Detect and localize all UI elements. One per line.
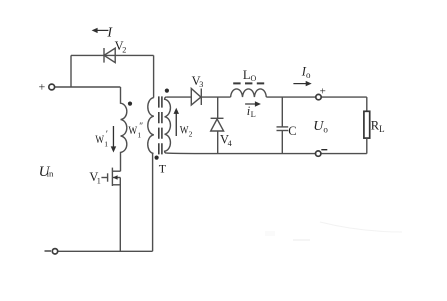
transformer core dashed lines <box>158 96 160 155</box>
svg-text:T: T <box>159 161 167 175</box>
arrow Io <box>293 81 311 86</box>
terminal output plus <box>316 94 321 99</box>
diode V4 <box>211 118 224 153</box>
label minus output <box>321 149 327 151</box>
label minus input <box>45 250 52 252</box>
svg-text:2: 2 <box>189 130 193 139</box>
wire: input plus lead <box>55 86 121 88</box>
winding W1 primary (left column) <box>121 87 127 171</box>
diode V3 <box>191 89 201 106</box>
dot W1 polarity <box>128 102 132 106</box>
dot demag polarity <box>155 156 159 160</box>
wire: V2 right leg down to demag winding <box>153 55 155 97</box>
capacitor C branch lower <box>281 131 283 154</box>
arrow W1' down <box>111 126 117 153</box>
svg-text:1: 1 <box>104 140 108 149</box>
inductor Lo coil <box>231 89 267 97</box>
terminal input plus <box>49 84 55 90</box>
svg-text:C: C <box>288 124 296 138</box>
wire: primary bottom rail <box>58 250 153 252</box>
source tap <box>112 184 120 186</box>
resistor RL <box>364 111 370 138</box>
svg-text:2: 2 <box>122 45 126 54</box>
svg-text:′: ′ <box>106 130 108 140</box>
wire: V2 left leg <box>70 55 72 87</box>
svg-text:in: in <box>47 169 54 179</box>
MOSFET V1 <box>101 168 120 186</box>
current arrow I <box>92 28 109 33</box>
svg-text:W: W <box>128 123 137 137</box>
channel bar <box>111 168 113 186</box>
terminal output minus <box>316 151 321 156</box>
capacitor C plates <box>277 126 289 128</box>
wire: inductor to output plus rail <box>266 96 367 98</box>
svg-text:″: ″ <box>139 122 143 132</box>
node junction to V4 <box>217 97 219 119</box>
terminal input minus <box>52 249 57 254</box>
winding W2 secondary <box>165 97 171 153</box>
wire: source down to bottom rail <box>119 178 121 252</box>
svg-text:RL: RL <box>371 119 385 135</box>
capacitor C branch upper <box>281 97 283 127</box>
svg-text:L: L <box>251 109 256 119</box>
svg-text:4: 4 <box>228 139 232 148</box>
core line of Lo (dashed) <box>233 82 264 84</box>
svg-text:Uo: Uo <box>313 119 328 135</box>
wire: secondary top from W2 to V3 <box>166 96 191 98</box>
arrow iL <box>245 101 261 106</box>
faint background smudges <box>265 222 402 240</box>
svg-text:Io: Io <box>301 64 311 80</box>
diode V2 <box>104 48 115 63</box>
svg-text:LO: LO <box>243 68 257 83</box>
arrow W2 up <box>174 108 180 136</box>
load branch right <box>366 97 368 111</box>
svg-text:1: 1 <box>97 177 101 186</box>
svg-text:3: 3 <box>199 80 203 89</box>
wire: secondary bottom rail <box>166 152 366 155</box>
drain tap <box>112 170 120 172</box>
wire: V3 to node and on to inductor <box>201 96 230 98</box>
svg-text:+: + <box>39 80 46 94</box>
dot W2 polarity <box>165 89 169 93</box>
svg-text:W: W <box>95 132 104 146</box>
body tap with arrow <box>112 177 120 179</box>
svg-text:I: I <box>106 25 113 40</box>
wire: V2 top branch <box>71 54 154 56</box>
gate lead <box>101 177 107 179</box>
winding W1'' demag (middle column) <box>148 98 154 252</box>
svg-text:+: + <box>320 85 326 97</box>
gate bar <box>107 173 109 181</box>
